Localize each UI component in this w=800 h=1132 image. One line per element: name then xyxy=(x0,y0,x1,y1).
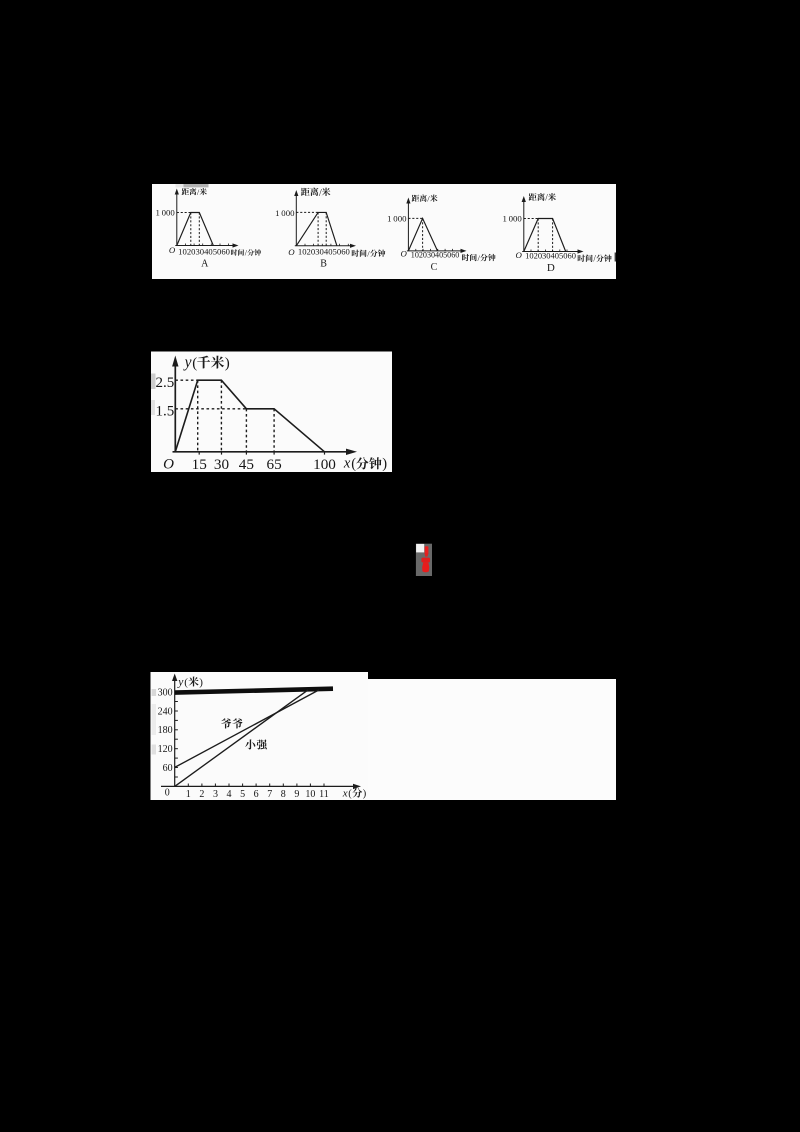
svg-text:5: 5 xyxy=(240,789,245,800)
chart2 x-axis xyxy=(173,451,351,453)
chart4 x-axis xyxy=(161,785,356,787)
chart B: x-axis title time/minutes xyxy=(352,250,359,257)
chart C: x-axis title time/minutes xyxy=(462,254,469,261)
chart D: distance-time curve xyxy=(524,219,566,252)
chart D: dashed vertical 1 xyxy=(537,219,539,252)
chart2 dashed level 1.5 xyxy=(175,408,246,410)
svg-text:/: / xyxy=(319,188,322,199)
chart4 grandpa line xyxy=(175,690,319,768)
svg-text:1: 1 xyxy=(186,789,191,800)
svg-text:7: 7 xyxy=(267,789,272,800)
chart4 x tick marks xyxy=(187,784,189,787)
chart B: x-axis xyxy=(295,245,352,247)
chart C: dashed level 1000 xyxy=(408,217,422,219)
svg-text:): ) xyxy=(225,356,230,372)
chart A: y-axis xyxy=(176,193,178,246)
svg-text:240: 240 xyxy=(158,706,173,717)
svg-text:x: x xyxy=(342,787,348,799)
white panel: race chart xyxy=(151,672,369,800)
svg-text:B: B xyxy=(320,259,327,270)
chart2 x tick marks xyxy=(198,452,200,455)
icon: gray badge xyxy=(416,544,432,576)
svg-text:3: 3 xyxy=(213,789,218,800)
svg-text:): ) xyxy=(199,677,203,689)
svg-text:1 000: 1 000 xyxy=(275,208,295,218)
svg-text:11: 11 xyxy=(319,789,329,800)
chart C: x tick marks xyxy=(415,249,417,251)
svg-text:45: 45 xyxy=(239,456,254,473)
svg-text:O: O xyxy=(163,456,174,472)
chart B: x tick marks xyxy=(304,244,306,246)
scan smudge left edge xyxy=(151,374,156,390)
svg-text:300: 300 xyxy=(158,687,173,698)
icon: red mark top xyxy=(425,546,429,554)
chart C: distance-time curve xyxy=(408,218,437,251)
svg-text:65: 65 xyxy=(267,456,282,473)
chart2 dashed vertical x=15 xyxy=(197,380,199,452)
chart C: x-axis xyxy=(407,250,463,252)
chart D: x-axis title time/minutes xyxy=(578,255,585,262)
svg-text:1 000: 1 000 xyxy=(155,207,175,217)
chart D: x tick marks xyxy=(530,250,532,252)
svg-text:O: O xyxy=(400,249,407,259)
chart2 y-axis xyxy=(174,362,176,452)
white panel: blank right block xyxy=(368,679,616,800)
chart A: x-axis xyxy=(175,245,234,247)
chart2 dashed vertical x=45 xyxy=(245,409,247,452)
chart2 dashed vertical x=30 xyxy=(220,380,222,452)
chart A: distance-time curve xyxy=(177,213,214,246)
white panel: km-min chart xyxy=(151,352,392,473)
chart B: dashed vertical 2 xyxy=(325,212,327,245)
chart4 thick 300m line xyxy=(175,689,333,693)
svg-text:4: 4 xyxy=(227,789,232,800)
svg-text:102030405060: 102030405060 xyxy=(178,246,230,256)
chart B: y-axis title distance/m xyxy=(301,188,310,196)
chart4 y-axis xyxy=(174,678,176,787)
svg-text:15: 15 xyxy=(192,456,207,473)
scan smudge top xyxy=(176,184,184,187)
svg-text:(: ( xyxy=(192,356,197,372)
svg-text:120: 120 xyxy=(158,744,173,755)
chart B: distance-time curve xyxy=(296,212,337,245)
chart4 label xiaoqiang xyxy=(245,739,255,749)
chart A: x-axis title time/minutes xyxy=(231,249,237,255)
chart D: x-axis xyxy=(522,251,579,253)
scan smudges left edge xyxy=(152,689,157,696)
chart C: dashed vertical 1 xyxy=(422,218,424,251)
chart D: dashed level 1000 xyxy=(524,218,538,220)
chart4 xiaoqiang line xyxy=(175,690,308,787)
chart4 y tick marks xyxy=(175,691,178,693)
chart A: y-axis title distance/m xyxy=(182,188,189,195)
chart2 dashed level 2.5 xyxy=(175,379,197,381)
svg-text:6: 6 xyxy=(254,789,259,800)
svg-text:100: 100 xyxy=(313,456,336,473)
chart A: dashed vertical 1 xyxy=(190,213,192,246)
svg-text:8: 8 xyxy=(281,789,286,800)
svg-text:y: y xyxy=(183,354,192,371)
chart D: y-axis xyxy=(523,200,525,252)
svg-text:102030405060: 102030405060 xyxy=(298,247,350,257)
icon: white square xyxy=(416,544,424,553)
svg-text:10: 10 xyxy=(305,789,315,800)
svg-text:1 000: 1 000 xyxy=(387,214,407,224)
chart B: dashed vertical 1 xyxy=(317,212,319,245)
svg-text:180: 180 xyxy=(158,725,173,736)
chart A: dashed vertical 2 xyxy=(198,213,200,246)
svg-text:2.5: 2.5 xyxy=(156,375,175,391)
svg-text:(: ( xyxy=(184,677,188,689)
chart C: y-axis xyxy=(407,202,409,251)
chart B: dashed level 1000 xyxy=(296,211,318,213)
chart2 distance curve xyxy=(175,380,324,452)
svg-text:C: C xyxy=(431,262,438,273)
svg-text:0: 0 xyxy=(165,787,170,798)
svg-text:D: D xyxy=(547,262,555,274)
chart C: y-axis title distance/m xyxy=(412,195,420,202)
svg-text:(: ( xyxy=(351,456,356,472)
svg-text:): ) xyxy=(363,789,367,800)
svg-text:(: ( xyxy=(348,789,352,800)
chart D: y-axis title distance/m xyxy=(529,193,537,201)
chart4 label grandpa xyxy=(221,718,231,728)
svg-text:O: O xyxy=(288,247,295,257)
icon: red mark bottom (pin) xyxy=(421,558,430,563)
chart A: dashed level 1000 xyxy=(177,212,191,214)
chart B: y-axis xyxy=(295,194,297,246)
svg-text:x: x xyxy=(343,456,351,472)
svg-text:9: 9 xyxy=(294,789,299,800)
chart A: x tick marks xyxy=(184,244,186,246)
white panel: options strip xyxy=(152,184,616,279)
svg-text:O: O xyxy=(169,245,176,255)
chart2 dashed vertical x=65 xyxy=(273,409,275,452)
svg-text:1.5: 1.5 xyxy=(156,403,175,419)
svg-text:60: 60 xyxy=(163,763,173,774)
svg-text:2: 2 xyxy=(199,789,204,800)
svg-text:102030405060: 102030405060 xyxy=(525,250,576,260)
svg-text:30: 30 xyxy=(214,456,230,473)
svg-text:O: O xyxy=(516,250,523,260)
scan mark right edge of strip xyxy=(615,253,616,262)
svg-text:): ) xyxy=(382,456,387,472)
svg-text:102030405060: 102030405060 xyxy=(411,249,460,259)
svg-text:1 000: 1 000 xyxy=(502,213,522,223)
svg-text:A: A xyxy=(201,259,209,270)
chart D: dashed vertical 2 xyxy=(552,219,554,252)
svg-text:/: / xyxy=(545,194,548,204)
